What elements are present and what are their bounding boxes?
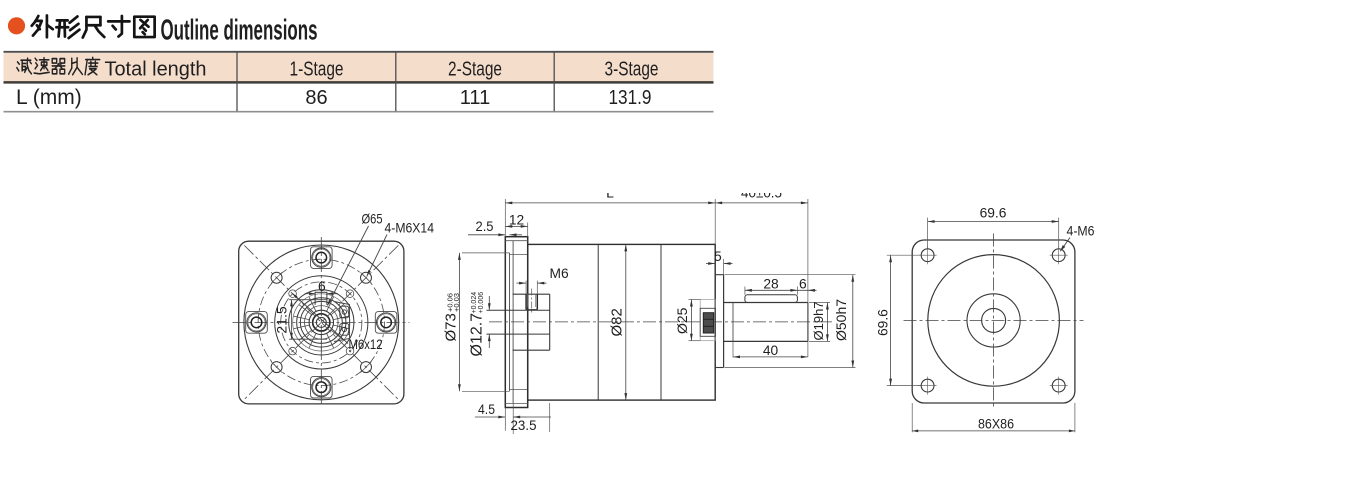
mid dim 40tol line xyxy=(715,202,808,204)
svg-text:6: 6 xyxy=(318,279,326,294)
svg-text:Ø65: Ø65 xyxy=(362,211,383,227)
left view bolt circle dashdot xyxy=(258,259,384,385)
title chinese 外形尺寸图 xyxy=(32,15,53,37)
mid dim 5 line xyxy=(706,263,715,265)
right dim 69.6 top line xyxy=(928,221,1059,223)
mid dim L ext lines xyxy=(504,199,506,237)
svg-text:23.5: 23.5 xyxy=(511,418,537,433)
right dim 86X86 ext xyxy=(911,403,913,432)
table top border xyxy=(4,51,714,53)
left view circle r5 xyxy=(316,317,326,327)
left view circle r28 xyxy=(293,294,350,351)
mid dim 12 line xyxy=(505,225,527,227)
mid dim M6 ext xyxy=(525,281,527,295)
svg-text:+0.024: +0.024 xyxy=(471,292,478,314)
svg-text:86: 86 xyxy=(305,87,327,109)
svg-text:69.6: 69.6 xyxy=(980,205,1007,220)
left view bolt hole E pad xyxy=(375,312,397,334)
label 4-M6 leader xyxy=(1060,238,1070,252)
table header band xyxy=(4,53,714,82)
svg-text:Ø12.7: Ø12.7 xyxy=(469,313,486,357)
table mid border xyxy=(4,81,714,84)
mid dim O50h7 ext xyxy=(725,274,856,276)
mid dim 28 ext xyxy=(744,287,746,295)
left view dim 6 line xyxy=(305,293,316,295)
svg-text:12: 12 xyxy=(509,212,524,227)
left view bolt hole N pad xyxy=(311,247,333,269)
mid output shaft xyxy=(724,302,808,304)
table col sep 1 xyxy=(236,52,238,111)
mid centerline xyxy=(489,321,834,323)
left view vertical centerline xyxy=(320,237,322,407)
svg-text:Outline dimensions: Outline dimensions xyxy=(161,15,318,47)
mid dim O25 ext xyxy=(689,299,701,301)
left view bolt hole S xyxy=(312,378,331,397)
left view circle r46 xyxy=(275,276,368,369)
mid dim O82 line xyxy=(625,244,627,400)
svg-text:40: 40 xyxy=(763,343,779,358)
left view circle r21 xyxy=(300,301,342,343)
mid dim 4.5 ext xyxy=(504,408,506,431)
mid dim key6 line xyxy=(797,289,816,291)
top crop whiteout xyxy=(430,148,890,193)
left view bolt hole S pad xyxy=(311,376,333,398)
svg-text:4-M6X14: 4-M6X14 xyxy=(385,220,435,236)
left view circle r12 xyxy=(309,310,333,334)
right view corner hole SE xyxy=(1052,379,1065,392)
mid flange inner line xyxy=(512,241,514,404)
svg-text:+0.006: +0.006 xyxy=(478,292,485,314)
left view outer circle xyxy=(244,245,399,400)
mid bore lines xyxy=(487,309,550,311)
svg-text:Ø82: Ø82 xyxy=(609,308,626,336)
svg-text:3-Stage: 3-Stage xyxy=(605,57,659,80)
mid dim O73 ext xyxy=(462,252,510,254)
mid flange outline xyxy=(505,237,527,408)
mid flange step bottom xyxy=(505,403,527,405)
mid spline recess xyxy=(700,300,715,341)
mid body outline xyxy=(528,244,716,400)
left view horizontal centerline xyxy=(233,321,410,323)
left view circle r17 xyxy=(305,306,339,340)
mid dim O12.7 line xyxy=(488,296,490,310)
mid M6 tapped hole xyxy=(525,294,527,309)
left view screw circle dashdot xyxy=(281,282,362,363)
right view middle circle xyxy=(967,294,1020,347)
svg-text:21.5: 21.5 xyxy=(274,306,290,333)
right view outer circle xyxy=(928,255,1060,387)
left view bolt hole E xyxy=(377,313,396,332)
table bottom border xyxy=(4,111,714,113)
left view spline spokes xyxy=(333,325,349,329)
svg-text:69.6: 69.6 xyxy=(876,309,891,336)
svg-text:6: 6 xyxy=(799,277,807,292)
mid dim O25 line xyxy=(690,300,692,341)
svg-text:4.5: 4.5 xyxy=(478,402,495,417)
left view 4 tapped holes 4-M6X14 xyxy=(271,272,282,283)
mid dim O19h7 ext xyxy=(809,302,830,304)
svg-text:Ø73: Ø73 xyxy=(443,313,460,341)
right dim 69.6 left ext xyxy=(887,254,922,256)
mid dim 28 line xyxy=(745,289,798,291)
right view horizontal centerline xyxy=(904,319,1084,321)
svg-text:1-Stage: 1-Stage xyxy=(290,57,344,80)
svg-text:+0.03: +0.03 xyxy=(452,293,461,312)
mid dim 4.5 line xyxy=(475,416,505,418)
left view dim 21.5 ext lines xyxy=(289,299,327,301)
mid body joint line 1 xyxy=(597,244,599,400)
mid dim 23.5 ext xyxy=(549,403,551,432)
svg-text:111: 111 xyxy=(460,87,490,109)
left view circle r24 xyxy=(297,298,346,347)
left view bolt hole W pad xyxy=(246,312,268,334)
right dim 86X86 line xyxy=(912,430,1075,432)
svg-text:Ø25: Ø25 xyxy=(674,307,690,334)
right view corner hole NE xyxy=(1052,249,1065,262)
mid dim O50h7 line xyxy=(852,275,854,368)
title bullet xyxy=(8,17,25,34)
left view dim 21.5 line xyxy=(291,300,293,340)
svg-text:Total length: Total length xyxy=(105,57,207,80)
mid dim 2.5 line xyxy=(468,234,505,236)
svg-text:4-M6: 4-M6 xyxy=(1067,224,1095,239)
mid output boss xyxy=(723,275,725,368)
table col sep 2 xyxy=(395,52,397,111)
mid dim O73 line xyxy=(458,253,460,391)
right view vertical centerline xyxy=(993,234,995,409)
left view M6x12 screw holes xyxy=(289,290,297,298)
label O65 leader xyxy=(328,226,369,306)
mid dim 40tol ext line xyxy=(807,199,809,357)
left view connector bracket xyxy=(334,302,350,342)
mid dim O19h7 line xyxy=(826,303,828,342)
mid body joint line 2 xyxy=(660,244,662,400)
svg-text:2-Stage: 2-Stage xyxy=(448,57,502,80)
left view diagonal centerline NE-SW xyxy=(244,245,398,399)
mid dim L line xyxy=(505,202,715,204)
mid shaft key xyxy=(745,295,798,303)
left view circle r8 xyxy=(313,314,330,331)
left view bolt hole W xyxy=(247,313,266,332)
right view square flange xyxy=(912,240,1075,403)
svg-text:Ø19h7: Ø19h7 xyxy=(811,301,826,340)
svg-text:2.5: 2.5 xyxy=(476,219,494,234)
svg-text:131.9: 131.9 xyxy=(609,87,652,109)
table header chinese 减速器长度 xyxy=(17,58,32,74)
mid input hub xyxy=(513,293,550,295)
svg-text:M6x12: M6x12 xyxy=(349,336,383,352)
mid dim M6 line xyxy=(517,282,527,284)
left view diagonal centerline NW-SE xyxy=(244,245,398,399)
svg-text:M6: M6 xyxy=(550,266,569,281)
svg-text:86X86: 86X86 xyxy=(978,417,1014,432)
left view bolt hole N xyxy=(312,248,331,267)
label M6x12 leader xyxy=(293,294,349,344)
right view corner hole SW xyxy=(921,379,934,392)
right dim 69.6 left line xyxy=(890,255,892,385)
right dim 69.6 top ext xyxy=(927,218,929,249)
left view keyway xyxy=(314,292,316,305)
label 4-M6X14 leader xyxy=(367,235,387,277)
mid dim 40 ext xyxy=(732,341,734,357)
mid flange step top xyxy=(505,240,527,242)
svg-text:L (mm): L (mm) xyxy=(16,86,82,109)
right view corner hole NW xyxy=(921,249,934,262)
left view circle r32 xyxy=(289,290,354,355)
svg-text:28: 28 xyxy=(763,277,779,292)
right view inner circle xyxy=(982,308,1006,332)
mid dim 5 ext xyxy=(723,259,725,275)
mid dim 12 ext xyxy=(527,223,529,237)
svg-text:Ø50h7: Ø50h7 xyxy=(833,299,849,341)
svg-text:5: 5 xyxy=(714,249,722,264)
mid dim 40 line xyxy=(733,356,808,358)
table col sep 3 xyxy=(553,52,555,111)
mid dim 23.5 line xyxy=(526,416,551,418)
left view square flange xyxy=(239,241,404,404)
mid flange spigot line xyxy=(509,253,511,391)
